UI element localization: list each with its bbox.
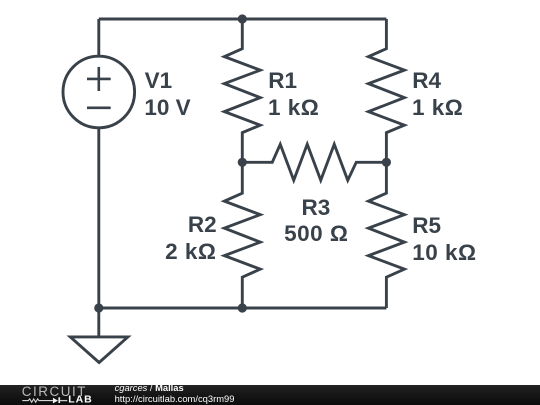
svg-text:500 Ω: 500 Ω <box>284 221 348 246</box>
node dot R1/R2/R3 <box>238 158 247 167</box>
CircuitLab logo <box>0 385 110 405</box>
node dot top rail / R1 <box>238 14 247 23</box>
resistor R5 <box>368 162 404 308</box>
svg-text:LAB: LAB <box>68 394 93 405</box>
resistor R1 <box>224 19 260 162</box>
footer attribution text <box>115 384 235 403</box>
ground <box>97 308 100 337</box>
svg-text:V1: V1 <box>145 68 173 93</box>
resistor R3 <box>242 144 386 180</box>
wire V1 bottom lead <box>97 127 100 308</box>
logo resistor squiggle <box>22 399 53 402</box>
svg-text:R1: R1 <box>268 68 297 93</box>
svg-text:R2: R2 <box>188 212 217 237</box>
footer bar <box>0 385 540 405</box>
logo lead wire <box>60 400 67 402</box>
svg-text:R4: R4 <box>412 68 441 93</box>
svg-text:1 kΩ: 1 kΩ <box>268 95 319 120</box>
svg-text:1 kΩ: 1 kΩ <box>412 95 463 120</box>
svg-text:R3: R3 <box>302 195 331 220</box>
wire bottom rail <box>99 307 387 310</box>
svg-text:2 kΩ: 2 kΩ <box>165 239 216 264</box>
resistor R2 <box>224 162 260 308</box>
svg-text:10 kΩ: 10 kΩ <box>412 240 476 265</box>
resistor R4 <box>368 19 404 162</box>
wire top rail <box>99 18 387 21</box>
svg-text:R5: R5 <box>412 213 441 238</box>
wire V1 top lead <box>97 19 100 57</box>
logo diode symbol <box>53 397 60 403</box>
node dot bottom rail / R2 <box>238 303 247 312</box>
node dot R3/R4/R5 <box>382 158 391 167</box>
svg-text:10 V: 10 V <box>144 95 190 120</box>
voltage source V1 <box>63 56 135 128</box>
node dot ground junction <box>94 303 103 312</box>
